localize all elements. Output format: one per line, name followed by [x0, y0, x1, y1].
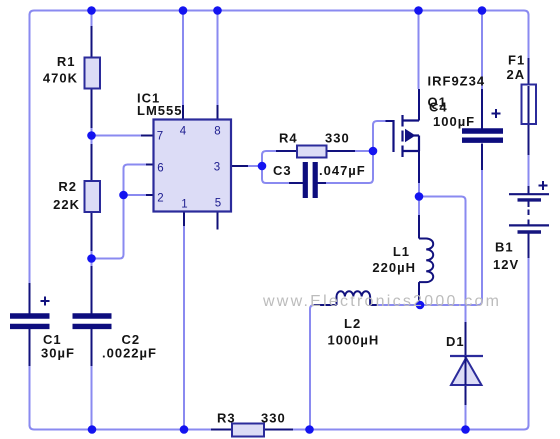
svg-text:100µF: 100µF	[433, 114, 475, 129]
svg-text:R2: R2	[58, 179, 77, 194]
wire: left border lower segment	[29, 366, 31, 426]
svg-text:1000µH: 1000µH	[328, 333, 380, 348]
wire: C1 top lead dark	[29, 283, 31, 314]
svg-text:4: 4	[180, 126, 187, 138]
svg-text:R1: R1	[57, 54, 76, 69]
svg-text:C4: C4	[429, 100, 448, 115]
svg-text:IRF9Z34: IRF9Z34	[428, 74, 486, 89]
node: ground rail D1	[461, 425, 470, 434]
svg-text:2A: 2A	[507, 67, 526, 82]
svg-text:330: 330	[261, 411, 286, 426]
wire: F1 bottom lead dark	[528, 123, 530, 155]
wire: B1 bottom lead dark	[528, 233, 530, 258]
svg-text:.0022µF: .0022µF	[102, 346, 157, 361]
wire: C3 right lead dark	[318, 182, 327, 184]
wire: R1 bottom lead to pin7 node	[91, 88, 93, 128]
fuse F1 2A	[522, 85, 537, 125]
wire: pin8 vertical from top rail	[217, 11, 219, 105]
node: top rail Q1 source	[414, 6, 423, 15]
wire: D1 top lead dark	[465, 322, 467, 356]
wire: F1 top lead dark	[528, 58, 530, 86]
svg-text:8: 8	[214, 126, 220, 138]
node: R2 bottom junction	[87, 254, 96, 263]
wire: L1 node to C4 bottom	[420, 170, 482, 305]
wire: R4 right light to node	[355, 150, 373, 152]
wire: pin1 stub and vertical to ground rail	[183, 211, 185, 226]
svg-text:B1: B1	[495, 240, 514, 255]
svg-text:7: 7	[157, 131, 163, 143]
wire: C3 right to R4 node vertical	[326, 151, 373, 183]
wire: D1 bottom lead	[465, 385, 467, 405]
resistor R3 330 on ground rail	[211, 429, 232, 431]
svg-text:12V: 12V	[493, 257, 519, 272]
battery B1 12V	[509, 194, 549, 232]
wire: pin2 stub dark	[146, 194, 154, 196]
wire: Q1 drain lead down to node	[418, 151, 420, 183]
wire: right border light segment above battery	[528, 155, 530, 186]
wire: right border lower light segment	[528, 258, 530, 426]
wire: pin3 to R4/C3 left node	[248, 165, 260, 167]
resistor R2 22K	[85, 181, 101, 212]
wire: bottom ground rail	[30, 425, 529, 430]
wire: pin4 vertical from top rail	[182, 11, 184, 105]
node: top rail pin8	[213, 6, 222, 15]
svg-text:L1: L1	[393, 244, 410, 259]
svg-text:R4: R4	[279, 131, 298, 146]
svg-text:30µF: 30µF	[41, 346, 75, 361]
wire: R4 left lead dark	[276, 150, 297, 152]
wire: R4 right lead dark	[326, 150, 355, 152]
resistor R1 470K	[85, 58, 101, 89]
node: R1/R2 pin7 junction	[87, 131, 96, 140]
wire: C1 bottom lead dark	[29, 329, 31, 366]
wire: pin2 light from junction	[124, 194, 147, 196]
wire: pin6 stub dark	[146, 164, 154, 166]
transistor Q1 IRF9Z34	[394, 115, 420, 157]
node: pin2 junction	[119, 191, 128, 200]
wire: L2 left vertical from ground rail	[310, 305, 322, 430]
wire: C2 top lead dark	[91, 266, 93, 314]
wire: drain node to D1 vertical	[421, 197, 466, 323]
node: ground rail L2	[305, 425, 314, 434]
node: pin3 node	[258, 162, 267, 171]
svg-text:470K: 470K	[43, 71, 78, 86]
wire: gate horizontal dark	[386, 120, 394, 122]
C4 polarity plus	[492, 109, 501, 118]
wire: C3 left lead dark	[289, 182, 303, 184]
svg-text:D1: D1	[446, 334, 465, 349]
wire: gate wire from node up	[373, 121, 386, 151]
wire: R1 top lead from top rail	[91, 11, 93, 26]
node: top rail pin4	[179, 6, 188, 15]
svg-text:5: 5	[215, 198, 221, 210]
svg-text:2: 2	[157, 193, 163, 205]
wire: pin6/pin2 connection to R2 bottom node	[95, 165, 146, 259]
IC IC1 LM555 body	[154, 120, 232, 212]
diode D1	[450, 355, 483, 357]
wire: pin7 horizontal from node	[92, 135, 142, 137]
svg-text:330: 330	[325, 131, 350, 146]
svg-text:F1: F1	[508, 53, 525, 68]
wire: L2 to L1 bottom node	[378, 304, 420, 306]
node: Q1 drain node	[415, 192, 424, 201]
svg-text:L2: L2	[344, 316, 361, 331]
capacitor C1 30uF plates	[10, 316, 50, 326]
node: ground rail pin1	[180, 425, 189, 434]
wire: pin5 stub unconnected	[217, 211, 219, 230]
svg-text:www.Electronics2000.com: www.Electronics2000.com	[262, 293, 499, 310]
wire: C4 bottom lead dark	[481, 144, 483, 171]
wire: R2 top lead	[91, 144, 93, 181]
wire: R4/C3 left vertical	[262, 151, 289, 183]
wire: C2 bottom lead dark	[91, 329, 93, 366]
svg-text:LM555: LM555	[137, 103, 182, 118]
node: L1 bottom node	[416, 301, 425, 310]
wire: C4 top lead	[481, 11, 483, 89]
wire: B1 top lead dark	[528, 186, 530, 194]
wire: C2 to ground rail light	[91, 366, 93, 430]
wire: Q1 source lead to top rail	[418, 11, 420, 89]
capacitor C4 100uF plates	[462, 131, 503, 140]
wire: right border upper light segment	[528, 14, 530, 58]
capacitor C3 .047uF plates	[305, 162, 315, 198]
svg-text:6: 6	[157, 163, 163, 175]
node: top rail C4	[478, 6, 487, 15]
svg-text:22K: 22K	[53, 197, 80, 212]
svg-text:C3: C3	[273, 163, 292, 178]
svg-text:1: 1	[181, 199, 187, 211]
svg-text:R3: R3	[217, 411, 236, 426]
svg-text:.047µF: .047µF	[319, 163, 366, 178]
node: R4 right node	[369, 147, 378, 156]
inductor L1 220uH	[418, 197, 420, 216]
B1 polarity plus	[539, 181, 548, 190]
wire: top supply rail	[30, 11, 529, 16]
inductor L2 1000uH	[314, 304, 337, 306]
node: ground rail C2	[88, 425, 97, 434]
wire: R2 bottom lead to node	[91, 212, 93, 251]
svg-text:3: 3	[214, 162, 220, 174]
capacitor C2 .0022uF plates	[73, 316, 112, 326]
wire: pin3 stub dark	[231, 165, 248, 167]
node: top rail R1	[87, 6, 96, 15]
resistor R4 330	[297, 146, 327, 158]
wire: left border upper segment	[29, 14, 31, 283]
svg-text:220µH: 220µH	[372, 260, 416, 275]
C1 polarity plus	[41, 297, 50, 306]
